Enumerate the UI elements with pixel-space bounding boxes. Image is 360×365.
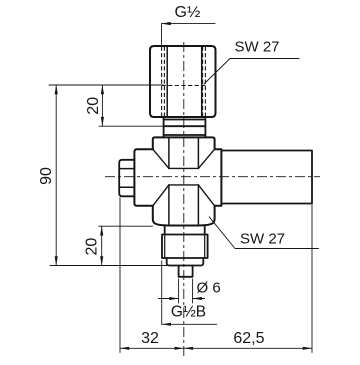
dim line 20 bottom bbox=[101, 226, 103, 265]
dim 20 top extension bottom bbox=[99, 125, 163, 127]
leader G1/2B bbox=[162, 323, 217, 325]
neck below nut bbox=[164, 117, 206, 137]
svg-text:20: 20 bbox=[85, 97, 102, 115]
dia6 extension lines bbox=[179, 279, 193, 303]
svg-text:G½B: G½B bbox=[171, 304, 206, 321]
bottom dim line bbox=[120, 347, 312, 349]
pipe right bbox=[221, 151, 312, 204]
body outline left bbox=[134, 149, 152, 206]
dim 90 extension top bbox=[49, 84, 163, 86]
hidden thread lines left bbox=[162, 47, 165, 117]
svg-text:32: 32 bbox=[141, 330, 159, 347]
centerline horizontal bbox=[105, 176, 320, 178]
centerline vertical bbox=[183, 42, 185, 357]
svg-text:Ø 6: Ø 6 bbox=[197, 280, 221, 297]
hex chamfer tangent lines bbox=[169, 168, 199, 185]
nut SW27 top outline bbox=[150, 46, 216, 117]
body outline right bbox=[215, 149, 222, 206]
plug left bbox=[119, 160, 134, 197]
svg-text:SW 27: SW 27 bbox=[235, 39, 280, 56]
svg-text:90: 90 bbox=[38, 167, 55, 185]
dia6 arrows bbox=[159, 298, 205, 300]
threaded stub G1/2B bbox=[165, 226, 205, 235]
svg-text:SW 27: SW 27 bbox=[240, 231, 285, 248]
chamfer diagonals bbox=[153, 149, 215, 206]
svg-text:62,5: 62,5 bbox=[233, 330, 264, 347]
hidden thread lines right bbox=[203, 47, 206, 117]
washer bbox=[167, 258, 204, 266]
extension line G1/2B bbox=[161, 261, 163, 324]
bottom extension lines bbox=[119, 198, 121, 353]
dim 90 extension bottom bbox=[50, 265, 167, 267]
dim line 90 bbox=[55, 85, 57, 266]
leader SW27 top bbox=[204, 59, 299, 85]
nut hex flat edges bbox=[167, 46, 202, 116]
upper hex band of body bbox=[153, 137, 215, 149]
leader SW27 bottom bbox=[209, 217, 318, 249]
svg-text:G½: G½ bbox=[175, 4, 201, 21]
hex corner edges inside body bbox=[169, 138, 199, 225]
lower hex band (SW27) bbox=[153, 206, 215, 226]
extension line G1/2 bbox=[161, 24, 163, 45]
dim 20 bottom extension top bbox=[99, 225, 153, 227]
dim line 20 top bbox=[101, 85, 103, 126]
hidden thread depth line bbox=[162, 85, 206, 87]
nipple dia 6 bbox=[179, 266, 193, 277]
svg-text:20: 20 bbox=[83, 238, 100, 256]
leader line G1/2 bbox=[162, 23, 216, 25]
